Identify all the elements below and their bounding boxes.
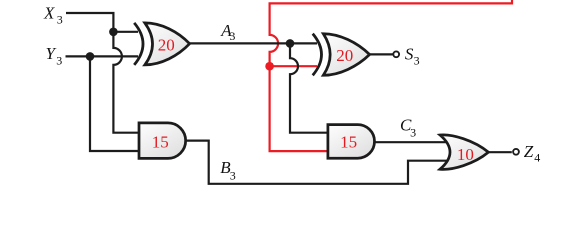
wire: A3 from XOR1 output to XOR2 upper input [190,42,317,44]
wire: XOR2 output to S3 terminal [370,53,393,55]
svg-text:3: 3 [57,12,63,26]
svg-text:3: 3 [56,53,62,67]
xor-gate U2 (label 20) body [323,34,369,76]
node: Y3 junction dot [86,52,95,61]
wire: Y3 input to XOR1 lower input [66,55,139,57]
terminal: Z4 output circle [513,149,519,155]
svg-text:3: 3 [414,54,420,68]
node: A3 junction dot [286,39,295,48]
xor-gate U2 (label 20) input-curve [313,34,322,76]
svg-text:15: 15 [340,132,357,151]
and-gate U4 (label 15) [328,125,375,159]
wire: A3 branch down with hop over red wire, to AND2 upper input [290,43,331,132]
svg-text:3: 3 [230,168,236,182]
terminal: S3 output circle [393,51,399,57]
svg-text:15: 15 [152,133,169,152]
svg-text:Z: Z [524,142,534,161]
wire: X3 branch to XOR1 upper input [113,31,138,33]
svg-text:20: 20 [336,46,353,65]
xor-gate U1 (label 20) body [145,23,190,65]
node: red carry junction dot [265,62,274,71]
xor-gate U1 (label 20) input-curve [134,23,143,65]
wire: B3 from AND1 output, down, right, up to OR lower input [186,141,449,184]
svg-text:20: 20 [158,36,175,55]
wire: C3 from AND2 output to OR upper input [375,141,449,143]
svg-text:4: 4 [534,151,540,165]
svg-text:3: 3 [229,29,235,43]
wire: X3 input, down with hop over Y3 wire, to AND1 upper input [66,13,142,133]
wire: OR output to Z4 terminal [489,151,512,153]
node: X3 junction dot [109,28,118,37]
svg-text:3: 3 [410,125,416,139]
svg-text:S: S [405,44,414,63]
wire: red branch from carry node to XOR2 lower input [270,65,317,67]
and-gate U3 (label 15) [139,123,186,158]
or-gate U5 (label 10) [440,135,488,169]
wire: Y3 branch down to AND1 lower input [90,56,142,151]
svg-text:X: X [43,4,55,23]
wire: red carry-in from top edge, left along top, down with hop over A3, to AND2 lower input [270,0,512,151]
svg-text:10: 10 [457,145,474,164]
svg-text:Y: Y [46,44,57,63]
